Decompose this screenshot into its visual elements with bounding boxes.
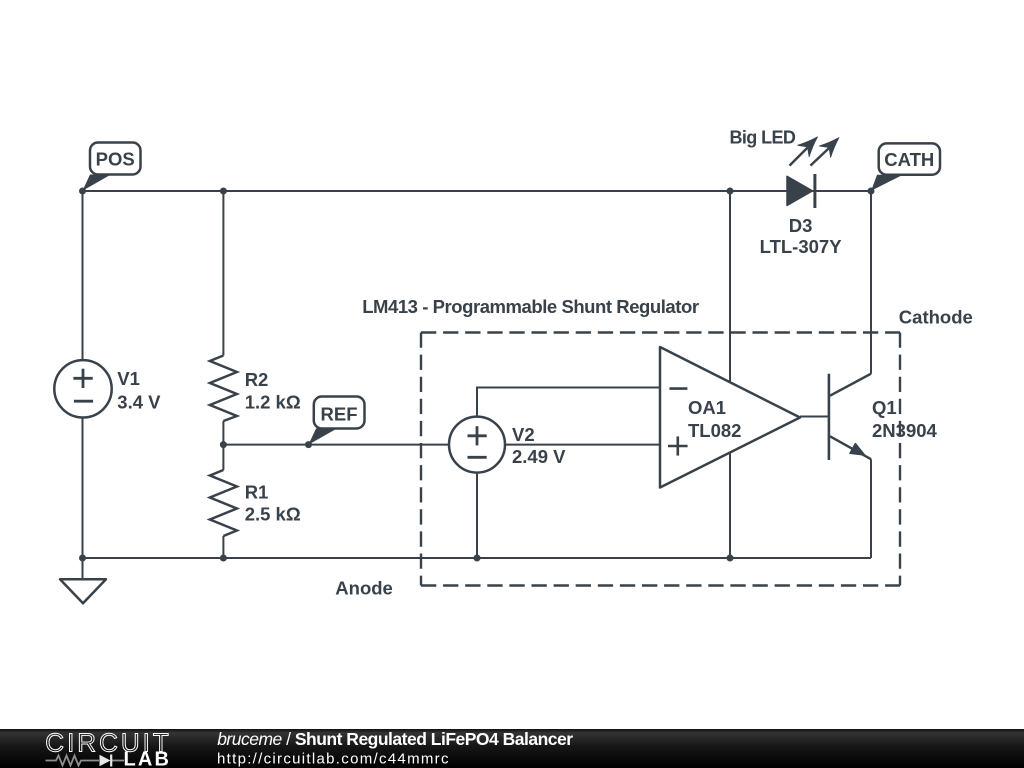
flag REF <box>309 397 365 445</box>
LED D3 light arrow 1 <box>790 137 818 166</box>
svg-text:CATH: CATH <box>884 149 934 170</box>
svg-text:TL082: TL082 <box>688 420 741 441</box>
svg-text:2N3904: 2N3904 <box>872 420 938 441</box>
svg-text:Anode: Anode <box>335 578 393 599</box>
svg-text:2.49 V: 2.49 V <box>512 446 566 467</box>
wire V2 bottom to ground rail <box>476 445 478 558</box>
LED D3 light arrow 2 <box>810 138 839 166</box>
wire Q1 emitter to bottom rail <box>870 459 872 558</box>
svg-text:REF: REF <box>321 404 358 425</box>
svg-text:LM413 - Programmable Shunt Reg: LM413 - Programmable Shunt Regulator <box>362 296 699 317</box>
resistor R2 <box>210 356 237 422</box>
junction node R2 top <box>220 188 227 195</box>
svg-text:1.2 kΩ: 1.2 kΩ <box>245 391 301 412</box>
svg-text:LTL-307Y: LTL-307Y <box>760 236 843 257</box>
junction node REF flag <box>305 441 312 448</box>
LM413 dashed boundary box <box>421 333 900 586</box>
wire top rail POS to CATH <box>83 190 872 192</box>
svg-text:R2: R2 <box>245 369 269 390</box>
junction node REF divider <box>220 441 227 448</box>
svg-text:V1: V1 <box>117 368 140 389</box>
D3 value label <box>760 215 843 257</box>
voltage source V2 <box>449 417 505 473</box>
svg-text:R1: R1 <box>245 482 269 503</box>
svg-text:bruceme / Shunt Regulated LiFe: bruceme / Shunt Regulated LiFePO4 Balanc… <box>217 729 573 749</box>
wire R2 top lead from rail <box>222 191 224 356</box>
junction node POS <box>79 188 86 195</box>
V1 value label <box>117 368 161 413</box>
Q1 value label <box>872 397 938 441</box>
ground symbol <box>60 558 106 603</box>
svg-text:Cathode: Cathode <box>899 307 973 328</box>
op-amp OA1 input symbols <box>668 389 688 456</box>
junction node ground left <box>79 555 86 562</box>
Q1 emitter arrow <box>850 444 865 455</box>
junction node supply bottom <box>727 555 734 562</box>
CircuitLab logo circuit art <box>46 756 125 766</box>
svg-text:V2: V2 <box>512 424 535 445</box>
svg-text:Big LED: Big LED <box>730 128 796 148</box>
svg-text:3.4 V: 3.4 V <box>117 392 161 413</box>
R2 value label <box>245 369 301 412</box>
junction node V2 bottom <box>474 555 481 562</box>
svg-text:LAB: LAB <box>124 749 172 768</box>
svg-text:OA1: OA1 <box>688 397 726 418</box>
wire bottom rail <box>83 557 872 559</box>
R1 value label <box>245 482 301 525</box>
junction node R1 bottom <box>220 555 227 562</box>
wire R1 bottom lead <box>222 536 224 558</box>
svg-text:http://circuitlab.com/c44mmrc: http://circuitlab.com/c44mmrc <box>217 750 450 767</box>
svg-text:D3: D3 <box>789 215 813 236</box>
junction node supply top <box>727 188 734 195</box>
svg-text:Q1: Q1 <box>872 397 897 418</box>
wire V2 top to op-amp minus input <box>477 388 660 445</box>
svg-text:2.5 kΩ: 2.5 kΩ <box>245 504 301 525</box>
junction node CATH <box>868 188 875 195</box>
V2 value label <box>512 424 566 467</box>
CircuitLab logo diode <box>100 755 112 767</box>
resistor R1 <box>210 470 237 536</box>
OA1 value label <box>688 397 741 441</box>
LED D3 diode <box>787 174 815 208</box>
transistor Q1 <box>800 374 871 460</box>
wire left vertical V1 branch <box>82 191 84 558</box>
flag POS <box>83 143 141 191</box>
footer bar <box>0 729 1024 768</box>
wire REF to V2 plus input row <box>223 444 660 446</box>
op-amp OA1 triangle <box>660 347 800 488</box>
svg-text:POS: POS <box>96 149 135 170</box>
flag CATH <box>871 143 940 190</box>
voltage source V1 <box>54 360 111 417</box>
wire R2-R1 middle with REF node <box>222 421 224 470</box>
wire op-amp supply vertical <box>729 191 731 558</box>
wire Q1 collector to top rail <box>870 191 872 374</box>
